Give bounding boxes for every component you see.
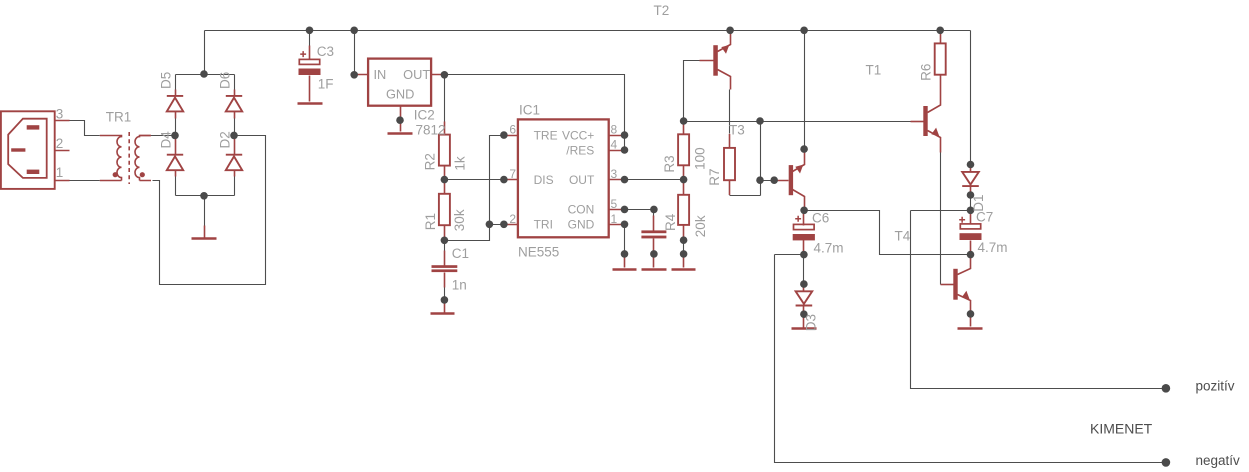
svg-text:1n: 1n [452, 278, 467, 293]
svg-text:GND: GND [568, 218, 595, 232]
svg-text:2: 2 [509, 212, 516, 226]
svg-text:C6: C6 [812, 211, 829, 226]
svg-text:DIS: DIS [534, 173, 554, 187]
svg-text:T3: T3 [729, 123, 745, 138]
svg-text:D6: D6 [218, 72, 233, 89]
svg-text:T4: T4 [895, 229, 911, 244]
svg-text:1: 1 [56, 165, 64, 180]
svg-text:R3: R3 [662, 155, 677, 172]
svg-text:2: 2 [56, 136, 64, 151]
svg-text:TRE: TRE [534, 129, 558, 143]
svg-text:OUT: OUT [403, 67, 430, 82]
svg-text:IC1: IC1 [519, 103, 540, 118]
svg-text:CON: CON [568, 202, 595, 216]
svg-text:3: 3 [611, 167, 618, 181]
svg-text:4: 4 [611, 138, 618, 152]
svg-text:R2: R2 [423, 153, 438, 170]
svg-text:8: 8 [611, 123, 618, 137]
svg-text:D3: D3 [803, 314, 818, 331]
svg-text:R4: R4 [663, 213, 678, 231]
svg-text:KIMENET: KIMENET [1090, 421, 1153, 437]
svg-text:7812: 7812 [416, 123, 446, 138]
svg-text:D5: D5 [159, 72, 174, 89]
svg-text:D1: D1 [971, 195, 986, 212]
svg-text:pozitív: pozitív [1196, 379, 1235, 394]
svg-text:GND: GND [386, 87, 414, 102]
svg-text:5: 5 [611, 197, 618, 211]
svg-text:R7: R7 [707, 168, 722, 185]
svg-text:30k: 30k [452, 209, 467, 231]
svg-text:TR1: TR1 [106, 110, 132, 125]
svg-text:IN: IN [374, 67, 387, 82]
svg-text:4.7m: 4.7m [814, 241, 844, 256]
svg-text:T2: T2 [654, 3, 670, 18]
svg-text:C1: C1 [452, 246, 469, 261]
svg-text:1F: 1F [318, 77, 334, 92]
svg-text:1: 1 [611, 212, 618, 226]
svg-text:6: 6 [509, 123, 516, 137]
svg-text:R6: R6 [918, 64, 933, 81]
svg-text:R1: R1 [423, 213, 438, 230]
svg-text:20k: 20k [693, 215, 708, 237]
svg-text:negatív: negatív [1196, 453, 1241, 468]
svg-text:VCC+: VCC+ [562, 129, 594, 143]
svg-text:3: 3 [56, 107, 64, 122]
svg-text:D2: D2 [218, 131, 233, 148]
svg-text:T1: T1 [866, 63, 882, 78]
svg-text:1k: 1k [452, 156, 467, 171]
svg-text:/RES: /RES [566, 144, 594, 158]
svg-text:OUT: OUT [569, 173, 595, 187]
svg-text:NE555: NE555 [518, 245, 559, 260]
svg-text:C3: C3 [317, 44, 334, 59]
svg-text:100: 100 [692, 147, 707, 170]
svg-text:IC2: IC2 [414, 108, 435, 123]
svg-text:D4: D4 [159, 131, 174, 149]
svg-text:TRI: TRI [534, 218, 553, 232]
svg-text:7: 7 [509, 167, 516, 181]
svg-text:4.7m: 4.7m [978, 240, 1008, 255]
